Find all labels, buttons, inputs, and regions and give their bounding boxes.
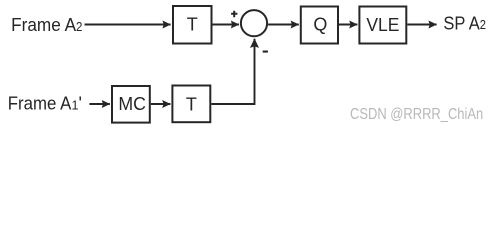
- wire T1 to summer: [213, 24, 240, 26]
- wire Frame A2 to T1: [85, 24, 171, 26]
- svg-text:T: T: [187, 15, 198, 35]
- wire Q to VLE: [339, 24, 357, 26]
- block MC motion compensation: [112, 86, 150, 123]
- svg-text:SP A: SP A: [443, 13, 479, 33]
- svg-text:VLE: VLE: [366, 15, 399, 35]
- svg-text:T: T: [186, 94, 197, 114]
- svg-text:CSDN @RRRR_ChiAn: CSDN @RRRR_ChiAn: [350, 106, 483, 123]
- block VLE variable length encoder: [359, 7, 406, 44]
- svg-text:Frame A: Frame A: [11, 15, 76, 35]
- plus sign: [231, 11, 237, 17]
- block T1 transform: [173, 6, 212, 44]
- block Q quantizer: [301, 7, 338, 44]
- minus sign: [263, 51, 268, 53]
- summing junction S1: [241, 10, 267, 36]
- wire summer to Q: [268, 24, 299, 26]
- svg-text:2: 2: [76, 20, 82, 34]
- wire MC to T2: [151, 103, 171, 105]
- svg-text:MC: MC: [118, 94, 146, 114]
- wire Frame A1' to MC: [89, 103, 110, 105]
- node SP A2: [443, 13, 486, 33]
- svg-text:2: 2: [480, 18, 486, 32]
- svg-text:Frame A: Frame A: [8, 94, 71, 114]
- node Frame A2: [11, 15, 82, 35]
- block T2 transform: [172, 86, 210, 123]
- wire VLE to output: [407, 24, 436, 26]
- svg-text:1: 1: [72, 97, 79, 112]
- node Frame A1': [8, 94, 82, 114]
- wire feedback T2 to summer: [211, 39, 254, 104]
- svg-text:': ': [79, 94, 82, 114]
- svg-text:Q: Q: [313, 15, 327, 35]
